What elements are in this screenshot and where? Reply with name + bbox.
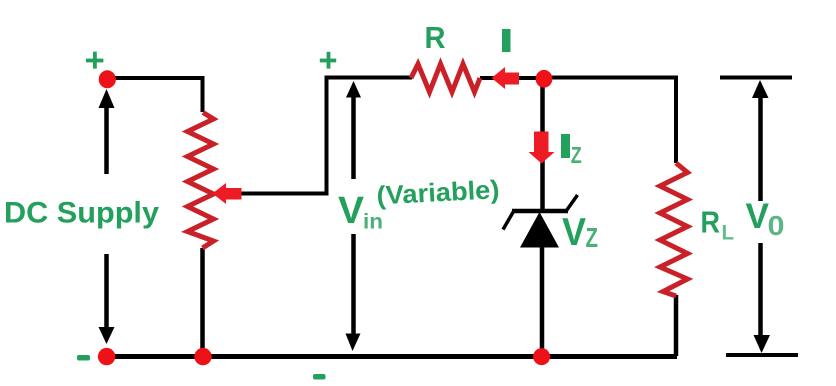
wire resistor R to node B: [480, 76, 544, 80]
svg-text:V: V: [746, 197, 770, 236]
svg-text:in: in: [363, 211, 383, 234]
DC supply up arrow: [99, 89, 115, 174]
wire node B to load resistor RL top: [544, 78, 676, 164]
svg-text:Z: Z: [571, 142, 582, 168]
current IZ arrow (pointing down): [529, 132, 555, 164]
wire zener branch upper: [540, 79, 545, 212]
Vin measurement arrow down: [346, 234, 361, 351]
svg-text:R: R: [701, 205, 721, 240]
junction dot bottom zener: [533, 348, 550, 365]
junction dot bottom potentiometer: [194, 348, 211, 365]
label plus left: [86, 52, 103, 69]
svg-text:V: V: [562, 211, 586, 254]
load resistor RL zigzag: [660, 163, 688, 296]
label IZ: [561, 134, 570, 158]
junction dot bottom-left: [98, 348, 115, 365]
zener diode D1 left tail: [503, 212, 514, 230]
wire Vin top to resistor R: [325, 76, 413, 80]
wire bottom rail: [106, 354, 677, 359]
label I: [502, 29, 511, 52]
zener diode D1 triangle: [520, 212, 559, 248]
label plus Vin: [320, 52, 336, 69]
label minus left: [77, 355, 90, 361]
svg-text:(Variable): (Variable): [376, 174, 500, 210]
svg-text:L: L: [722, 221, 735, 245]
svg-text:DC Supply: DC Supply: [4, 197, 159, 230]
V0 measurement bottom cap bar: [726, 353, 798, 357]
node B junction dot top-middle: [536, 70, 553, 88]
DC supply down arrow: [99, 254, 115, 344]
Vin measurement arrow up: [346, 81, 361, 179]
V0 measurement arrow up: [752, 80, 769, 201]
svg-text:V: V: [338, 190, 365, 232]
potentiometer wiper arrow: [213, 183, 242, 204]
zener diode D1 cathode bar: [512, 209, 568, 214]
wire potentiometer bottom to bottom rail: [200, 248, 205, 356]
wire wiper to Vin plus corner: [241, 79, 327, 194]
current I arrow (pointing left): [492, 67, 520, 89]
label minus bottom: [313, 374, 326, 380]
wire zener branch lower: [540, 246, 545, 356]
resistor R zigzag: [411, 64, 480, 92]
svg-text:0: 0: [768, 210, 785, 241]
zener diode D1 right tail: [567, 195, 578, 211]
V0 measurement top cap bar: [720, 76, 792, 80]
node A junction dot top-left: [99, 70, 116, 88]
potentiometer resistive element: [188, 113, 214, 249]
svg-text:Z: Z: [586, 222, 599, 253]
wire top-left from node A to potentiometer top: [107, 78, 203, 112]
V0 measurement arrow down: [754, 243, 771, 353]
wire load resistor RL bottom to bottom rail: [674, 295, 679, 356]
svg-text:R: R: [425, 20, 446, 55]
